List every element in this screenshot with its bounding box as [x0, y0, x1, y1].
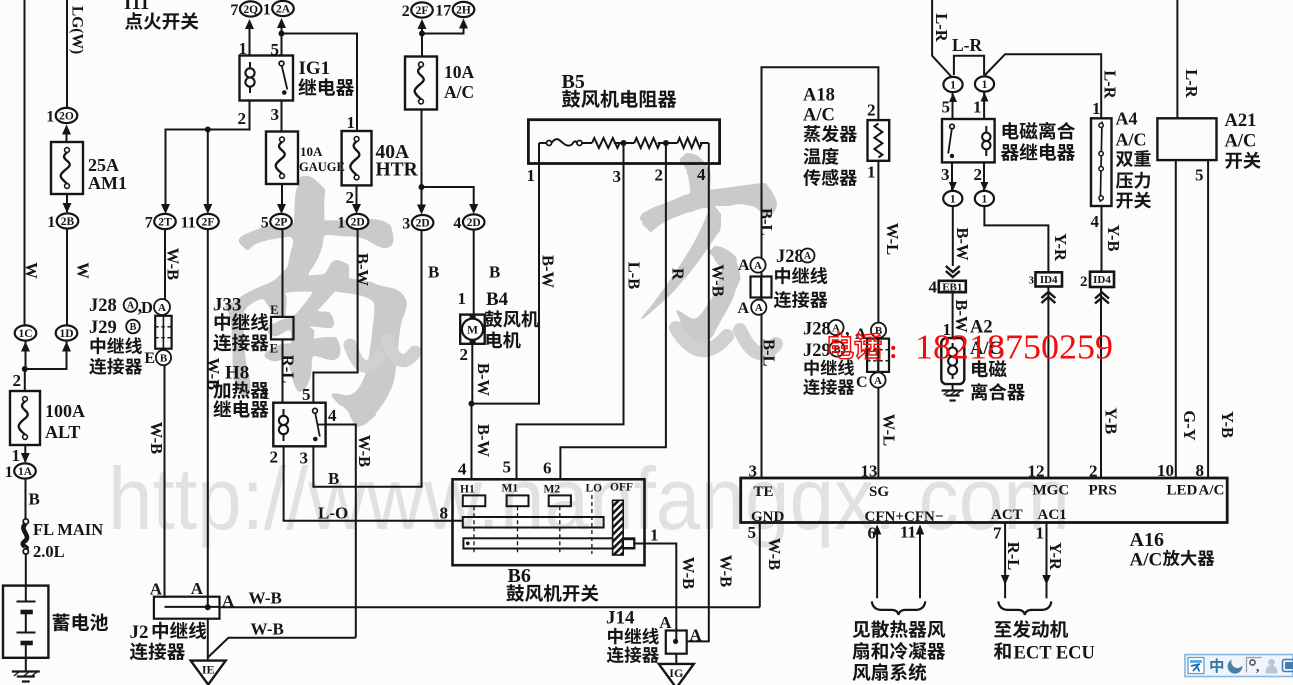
fuse 10A A/C [405, 57, 437, 110]
wire GAUGE to node 2P [281, 184, 283, 206]
B5 resistor 3 [678, 138, 702, 148]
A/C switch A21 [1157, 118, 1216, 160]
wire J33 to relay H8 pin1 [282, 339, 284, 402]
wire EB1 to clutch A2 [952, 292, 954, 338]
svg-text:M2: M2 [544, 484, 561, 496]
svg-text:1D: 1D [59, 328, 73, 340]
svg-text:E: E [270, 303, 278, 317]
svg-text:LG(W): LG(W) [69, 6, 86, 54]
wire H8 pin2 L-O to B6 pin8 [284, 446, 463, 521]
svg-text:Y-B: Y-B [1104, 225, 1123, 252]
svg-text:6: 6 [543, 459, 552, 478]
svg-text:B: B [328, 469, 339, 488]
clutch coil A2 [941, 338, 964, 384]
svg-text:3: 3 [1029, 275, 1035, 287]
arrow into 2P [277, 204, 286, 214]
svg-text:A: A [738, 257, 750, 274]
svg-text:E: E [144, 350, 155, 367]
svg-text:B5: B5 [562, 71, 585, 93]
svg-text:H8: H8 [225, 363, 249, 384]
svg-text:A: A [737, 300, 749, 317]
node 1C [15, 325, 37, 340]
svg-text:M: M [467, 324, 478, 336]
svg-text:4: 4 [458, 460, 467, 479]
wire HTR pin2 to node 2D [356, 185, 358, 206]
svg-text:B-W: B-W [539, 255, 558, 289]
fan system note [853, 620, 946, 638]
svg-text:10: 10 [1157, 461, 1174, 480]
svg-text:1: 1 [337, 214, 345, 231]
node 2F ac [402, 2, 433, 19]
B6 output tab [623, 539, 635, 548]
svg-text:7: 7 [230, 2, 238, 19]
svg-text:B-L: B-L [757, 208, 776, 236]
svg-text:3: 3 [613, 167, 622, 186]
svg-text:2O: 2O [59, 111, 74, 123]
svg-text:1: 1 [46, 108, 54, 125]
svg-text:B-W: B-W [353, 253, 372, 287]
svg-text:ECT ECU: ECT ECU [1014, 644, 1095, 664]
brace ecu wires [998, 601, 1051, 615]
svg-text:W-B: W-B [249, 589, 282, 608]
svg-text:M1: M1 [502, 483, 519, 495]
arrow into 2A [277, 18, 286, 28]
B5 internal bus [539, 142, 709, 144]
B6 wiper bar [463, 517, 604, 528]
svg-text:L-O: L-O [318, 504, 348, 523]
junction J2 [205, 604, 211, 610]
wire 2T to connector J28A [164, 230, 166, 300]
node 2H [435, 2, 474, 19]
relay IG1 switch [279, 61, 284, 66]
svg-text:A18: A18 [803, 86, 835, 106]
svg-text:W-L: W-L [883, 223, 902, 255]
wire L-R from top to A21 [1176, 0, 1178, 118]
svg-text:2Q: 2Q [243, 4, 258, 16]
svg-text:3: 3 [749, 462, 758, 481]
node 1 lower left [943, 191, 962, 206]
watermark nan [225, 176, 407, 427]
wire 1C to junction [24, 341, 27, 369]
svg-text:1: 1 [458, 289, 467, 308]
svg-text:A: A [222, 592, 235, 611]
svg-text:1: 1 [982, 79, 988, 91]
svg-text:2F: 2F [416, 5, 429, 17]
node 1 right [975, 76, 994, 91]
svg-text:L-R: L-R [1182, 69, 1201, 99]
wire ID4 right to A16 PRS [1100, 287, 1102, 478]
svg-text:EB1: EB1 [942, 281, 962, 293]
svg-text:2T: 2T [158, 217, 172, 229]
junction node [22, 366, 28, 372]
svg-text:3: 3 [300, 449, 309, 468]
svg-text:1: 1 [867, 163, 876, 182]
svg-text:2: 2 [655, 166, 664, 185]
wire motor pin2 to junction [471, 344, 474, 404]
connector J2 [154, 597, 220, 619]
svg-text:MGC: MGC [1033, 483, 1070, 499]
wire 2D-4 to motor [473, 231, 475, 315]
arrow into 2D-3 [417, 205, 426, 215]
svg-text:B: B [29, 490, 40, 509]
ime toolbar [1185, 655, 1293, 677]
wire L-R to pressure switch A4 [985, 54, 1102, 118]
wire A21 to A16 LED [1175, 160, 1177, 478]
wire junction to B6 pin4 [471, 404, 473, 480]
wire H8 pin4 W-B to ground line [326, 425, 356, 638]
svg-text:1A: 1A [18, 466, 33, 478]
wire 1A to fusible link [25, 479, 27, 520]
clutch relay coil [985, 126, 987, 133]
svg-text:FL MAIN: FL MAIN [33, 520, 103, 539]
chevron arrows into EB1 [946, 266, 960, 277]
svg-text:17: 17 [435, 2, 451, 19]
svg-text:W-B: W-B [147, 422, 166, 454]
svg-text:2B: 2B [61, 216, 75, 228]
wire ALT to node 1A [24, 445, 26, 462]
wire J14 to ground IG [675, 654, 677, 665]
amplifier A16 [741, 478, 1227, 523]
svg-text:25A: 25A [88, 155, 119, 175]
wire A21 pin5 to A16 AC [1207, 160, 1209, 478]
svg-text:1: 1 [650, 526, 659, 545]
svg-text:AC1: AC1 [1038, 507, 1067, 523]
arrow into 2F ac [418, 19, 427, 29]
wire CFN+ from fan system [876, 531, 878, 598]
arrow into 1A [21, 453, 30, 463]
svg-text:3: 3 [941, 165, 950, 184]
svg-text:2D: 2D [416, 218, 430, 230]
B5 thermal fuse [547, 141, 552, 146]
svg-text:11: 11 [900, 523, 916, 542]
svg-text:G-Y: G-Y [1180, 410, 1199, 440]
arrow into 2O [62, 125, 71, 135]
node 2D pin3 [402, 215, 433, 232]
sensor A18 thermistor [868, 120, 890, 161]
svg-text:5: 5 [503, 458, 512, 477]
fuse 25A AM1 [51, 142, 83, 194]
B5 pin3 wire [623, 143, 625, 164]
wire 2F to J2 [207, 230, 209, 607]
svg-text:2H: 2H [456, 5, 471, 17]
wire AC fuse to nodes 2D [421, 110, 423, 207]
svg-text:Y-R: Y-R [1051, 233, 1070, 262]
B5 resistor 2 [634, 138, 660, 148]
wire A2 to ground [952, 384, 954, 390]
svg-text:ID4: ID4 [1040, 274, 1058, 286]
svg-text:A/C: A/C [1225, 132, 1257, 152]
node 2A [263, 1, 294, 18]
wire LG(W) from ignition switch [66, 0, 68, 107]
svg-text:1: 1 [262, 384, 271, 403]
svg-text:W-B: W-B [717, 555, 736, 587]
junction on pin5 wire [279, 31, 285, 37]
svg-text:1: 1 [982, 194, 988, 206]
svg-text:http://www.nanfangqx. com: http://www.nanfangqx. com [108, 449, 1070, 548]
connector J28A grid [155, 316, 171, 349]
svg-text:,: , [1256, 659, 1259, 674]
svg-text:A: A [150, 580, 163, 599]
svg-text:2: 2 [13, 371, 22, 390]
watermark swoosh 2 [676, 328, 776, 353]
svg-text:2: 2 [1089, 462, 1098, 481]
wire IG1 pin2 to nodes 2T 2F [166, 101, 250, 207]
svg-text:A/C: A/C [1199, 483, 1225, 499]
pressure switch A4 [1091, 118, 1112, 206]
svg-text:A/C: A/C [1116, 130, 1147, 150]
ground IG [659, 664, 694, 685]
svg-text:1: 1 [950, 194, 956, 206]
wire A4 pin4 Y-B to ID4 right [1101, 206, 1103, 272]
svg-text:H1: H1 [460, 484, 475, 496]
svg-text:A: A [804, 251, 812, 262]
svg-text:ACT: ACT [991, 507, 1023, 523]
blower switch B6 [453, 479, 645, 565]
wire 2P to J33 [282, 230, 284, 317]
svg-text:B: B [160, 353, 168, 365]
svg-text:IG1: IG1 [299, 58, 331, 79]
svg-text:B: B [428, 263, 439, 282]
node 1A [5, 463, 36, 480]
blower resistor B5 [528, 120, 719, 164]
arrow into 2T [161, 204, 170, 214]
advert phone text [829, 328, 1113, 367]
B5 resistor 1 [592, 138, 620, 148]
battery label [53, 613, 108, 631]
svg-text:A/C: A/C [1130, 550, 1163, 571]
ground rail W-B to A16 GND [220, 606, 760, 608]
svg-text:L-B: L-B [625, 262, 644, 290]
ground under A2 [942, 391, 964, 401]
wire 2O to fuse AM1 [66, 133, 68, 142]
svg-text:B-W: B-W [474, 424, 493, 458]
node 1 lower right [975, 191, 994, 206]
svg-text:1: 1 [1092, 99, 1101, 118]
wire CFN- from fan system [919, 531, 921, 598]
svg-text:ID4: ID4 [1093, 274, 1111, 286]
wire relay pin3 down [951, 162, 953, 191]
fuse 40A HTR [342, 131, 372, 185]
svg-text:LED: LED [1167, 483, 1198, 499]
svg-text:13: 13 [861, 462, 878, 481]
svg-text:Y-R: Y-R [1046, 542, 1065, 571]
svg-text:4: 4 [328, 406, 337, 425]
svg-text:A: A [127, 301, 135, 312]
svg-text:2: 2 [1080, 274, 1088, 290]
svg-text:J29: J29 [89, 318, 117, 338]
wire B5 pin3 L-B to B6 pin5 [517, 164, 624, 480]
svg-text:12: 12 [1028, 462, 1045, 481]
node 2B [47, 213, 78, 230]
wire B5 pin1 B-W to motor junction [472, 164, 540, 404]
arrow into node1 left [949, 93, 957, 102]
svg-text:A: A [158, 302, 166, 314]
svg-text:2D: 2D [467, 217, 481, 229]
svg-text:A21: A21 [1225, 111, 1257, 131]
wire J28 to J2 [164, 365, 166, 598]
junction at motor output [469, 401, 475, 407]
svg-text:C: C [856, 374, 868, 391]
svg-text:Y-B: Y-B [1218, 411, 1237, 438]
svg-text:8: 8 [1196, 461, 1205, 480]
B6 dashed guides [474, 495, 592, 554]
fuse 10A GAUGE [266, 132, 298, 185]
svg-text:A: A [874, 375, 882, 387]
svg-text:GND: GND [751, 509, 785, 525]
svg-text:4: 4 [453, 215, 461, 232]
svg-text:J28: J28 [803, 320, 831, 340]
node 2Q [230, 1, 261, 18]
svg-text:2: 2 [974, 165, 983, 184]
wire loop TE to sensor A18 [762, 67, 879, 478]
arrow into node1 right [981, 93, 989, 102]
svg-text:J29: J29 [803, 341, 831, 361]
arrow into node1 lower-right [980, 182, 988, 191]
clutch relay label [1003, 122, 1075, 140]
arrow into 2D-1 [352, 204, 361, 214]
relay IG1 [240, 56, 294, 101]
svg-text:11: 11 [181, 214, 196, 231]
svg-text:A/C: A/C [444, 82, 474, 102]
relay H8 coil [283, 409, 285, 416]
node B below grid [156, 350, 171, 365]
branch to 2D-4 [422, 187, 474, 206]
svg-text:R: R [669, 268, 688, 281]
svg-text:2F: 2F [202, 217, 215, 229]
svg-text:AM1: AM1 [88, 173, 127, 193]
wire 2A to relay IG1 pin5 [281, 26, 283, 56]
brace fan wires [872, 601, 926, 615]
svg-text:J28: J28 [89, 296, 117, 316]
svg-text:W-B: W-B [679, 557, 698, 589]
arrow into 2H [459, 19, 468, 29]
svg-text:5: 5 [1195, 166, 1204, 185]
svg-text:100A: 100A [45, 401, 85, 421]
junction on pin2 wire [205, 127, 211, 133]
node 2T [145, 214, 176, 231]
wire A16 GND down [759, 523, 761, 608]
svg-text:A: A [659, 613, 672, 632]
svg-text:J33: J33 [213, 295, 242, 316]
junction [419, 184, 425, 190]
blower motor B4 [460, 315, 485, 344]
wire ACT R-L to ECU [1004, 523, 1006, 599]
svg-text:B: B [130, 322, 137, 333]
svg-text:L-R: L-R [1101, 70, 1120, 100]
fusible link FL MAIN 2.0L [23, 519, 28, 524]
svg-text:OFF: OFF [610, 482, 633, 494]
B5 pin2 wire [665, 143, 667, 164]
svg-text:A: A [690, 626, 703, 645]
ground IE [191, 661, 226, 685]
svg-text:LO: LO [586, 483, 603, 495]
watermark swoosh 1 [350, 340, 415, 366]
arrow into 1D [62, 342, 71, 352]
ecu note [994, 620, 1068, 638]
svg-text:1: 1 [263, 1, 271, 18]
node 1D [56, 325, 78, 340]
arrow into 1C [21, 342, 30, 352]
svg-text:2A: 2A [276, 4, 291, 16]
svg-text:2: 2 [402, 3, 410, 20]
svg-text:J2: J2 [130, 622, 149, 643]
svg-text:8: 8 [440, 504, 449, 523]
svg-text:A/C: A/C [803, 106, 835, 126]
svg-text:TE: TE [754, 484, 774, 500]
connector J33 [271, 317, 294, 340]
svg-text:W-B: W-B [355, 435, 374, 467]
magnetic clutch relay [942, 119, 995, 162]
node 2P [261, 214, 292, 231]
fuse 100A ALT [10, 391, 40, 445]
wire B-W to EB1 [952, 206, 954, 266]
svg-text:PRS: PRS [1089, 483, 1117, 499]
B6 OFF block hatched [613, 500, 624, 555]
watermark fang [640, 153, 777, 353]
wire AM1 to node 2B [66, 194, 68, 212]
wire 2Q to relay IG1 pin1 [249, 27, 251, 56]
svg-text:B-W: B-W [953, 228, 972, 262]
wire IG1 pin3 to fuse GAUGE [281, 101, 283, 132]
svg-text:D: D [141, 298, 153, 317]
svg-text:SG: SG [869, 484, 889, 500]
svg-text:2.0L: 2.0L [33, 542, 65, 561]
svg-text:1: 1 [347, 113, 356, 132]
svg-text:E: E [270, 342, 278, 356]
wire junction to fuse ALT [24, 369, 26, 391]
svg-text:B4: B4 [486, 289, 509, 310]
svg-text:5: 5 [942, 98, 951, 117]
svg-text:3: 3 [271, 105, 280, 124]
wire J2 to ground IE [207, 619, 209, 661]
svg-text:R-L: R-L [279, 355, 298, 383]
svg-text:B-L: B-L [760, 339, 779, 367]
chevron arrows into ID4 left [1041, 292, 1055, 303]
connector J14 [666, 631, 687, 654]
svg-text:Y-B: Y-B [1101, 407, 1120, 434]
battery [3, 586, 48, 658]
svg-text:B-W: B-W [474, 363, 493, 397]
svg-text:I11: I11 [124, 0, 149, 14]
node 2O [46, 108, 77, 125]
svg-text:J14: J14 [606, 608, 635, 629]
svg-text:1: 1 [47, 214, 55, 231]
svg-text:W-B: W-B [251, 620, 284, 639]
svg-text:2: 2 [867, 101, 876, 120]
svg-text:W: W [74, 262, 93, 279]
wire B5 pin2 R to B6 pin6 [560, 164, 666, 480]
svg-text:2D: 2D [351, 217, 365, 229]
arrow into 2B [63, 203, 72, 213]
svg-text:7: 7 [993, 524, 1002, 543]
svg-text:4: 4 [697, 165, 706, 184]
svg-text:2P: 2P [275, 217, 288, 229]
svg-text:A4: A4 [1116, 109, 1138, 129]
arrow into 2D-4 [469, 204, 478, 214]
svg-text:4: 4 [929, 278, 938, 297]
svg-text:L-R: L-R [932, 13, 951, 43]
svg-text:A: A [755, 302, 763, 314]
node 2D pin4 [453, 214, 484, 231]
arrow into 2F [203, 204, 212, 214]
node 2F [181, 214, 219, 231]
node 1 left [943, 77, 962, 92]
svg-text:1: 1 [973, 98, 982, 117]
svg-text:1: 1 [12, 446, 21, 465]
svg-text:IG: IG [669, 666, 683, 680]
svg-text:W-B: W-B [164, 248, 183, 280]
svg-text:1: 1 [5, 464, 13, 481]
